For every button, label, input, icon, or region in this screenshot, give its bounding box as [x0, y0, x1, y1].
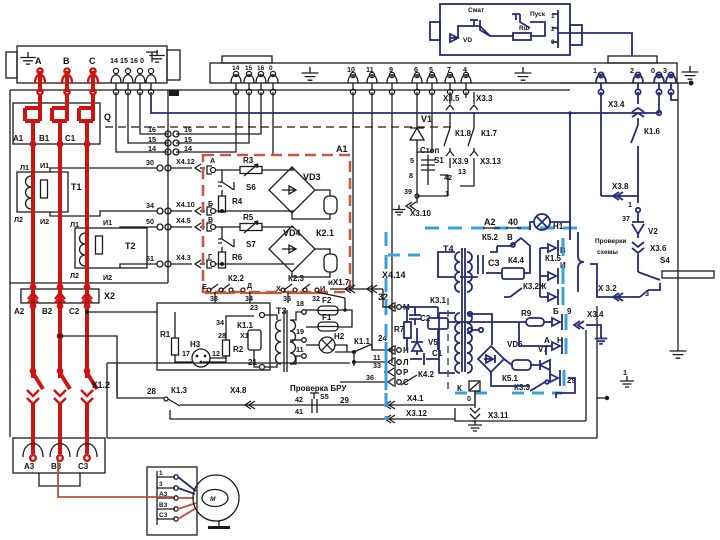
svg-text:6: 6: [414, 65, 418, 74]
pin row Л: [394, 357, 396, 367]
wire strip2-16 down: [176, 92, 261, 134]
red chevrons in X2: [28, 293, 38, 303]
svg-text:Х4.3: Х4.3: [176, 253, 191, 262]
Q linkage dashed: [105, 126, 452, 128]
svg-text:1: 1: [593, 66, 597, 75]
motor terminal circles: [174, 475, 178, 479]
strip2 right terminal 2: [635, 72, 640, 77]
wire 14 cascade: [116, 92, 168, 152]
svg-text:R2: R2: [233, 345, 244, 354]
ground in strip X1 left: [20, 52, 35, 64]
ground right end: [682, 66, 699, 79]
svg-text:М: М: [210, 496, 216, 503]
svg-text:36: 36: [366, 373, 374, 382]
svg-text:13: 13: [458, 167, 466, 176]
row X4.1: [180, 404, 470, 406]
svg-text:10: 10: [347, 65, 355, 74]
svg-text:16: 16: [257, 65, 265, 72]
svg-text:Х4.10: Х4.10: [176, 200, 195, 209]
switch Q box: [13, 103, 100, 144]
svg-text:Н2: Н2: [334, 332, 345, 341]
svg-text:19: 19: [296, 327, 304, 336]
blue wires upper: [490, 246, 497, 252]
svg-text:2: 2: [551, 26, 555, 33]
svg-text:F1: F1: [322, 313, 332, 322]
relay coil K2.1a: [315, 190, 330, 196]
svg-text:Л1: Л1: [20, 163, 29, 172]
svg-text:29: 29: [340, 396, 349, 405]
strip2 terminal 16: [258, 71, 263, 76]
terminal strip top long: [210, 63, 677, 83]
svg-text:37: 37: [622, 214, 630, 223]
inner dashed divider: [447, 298, 449, 392]
svg-text:Стоп: Стоп: [420, 146, 439, 155]
svg-text:К3.1: К3.1: [430, 296, 447, 305]
svg-text:В3: В3: [159, 502, 168, 509]
svg-text:К3.2Ж: К3.2Ж: [523, 282, 547, 291]
svg-text:14: 14: [148, 144, 156, 153]
T4 secondary left loop: [439, 312, 455, 314]
svg-text:Проверки: Проверки: [595, 238, 626, 245]
motor M: [193, 475, 239, 521]
inner divider wall: [167, 90, 169, 283]
wire 32: [317, 292, 345, 298]
svg-text:5: 5: [410, 156, 414, 165]
bridge VD4: [269, 226, 315, 272]
svg-text:30: 30: [146, 158, 154, 167]
svg-text:А2: А2: [484, 217, 496, 227]
red drop C: [85, 138, 89, 378]
svg-text:F2: F2: [322, 296, 332, 305]
svg-text:11: 11: [366, 65, 374, 74]
strip2 terminal 15: [246, 71, 251, 76]
svg-text:2: 2: [630, 66, 634, 75]
svg-text:0: 0: [269, 65, 273, 72]
right enclosure wall: [677, 83, 679, 345]
transformer T2: [75, 228, 147, 268]
VD3 out wires: [291, 167, 293, 170]
ground right wall: [670, 345, 687, 358]
tab on long strip right: [608, 56, 657, 63]
A3 B3 C3 outlet box: [13, 438, 105, 473]
svg-text:8: 8: [409, 171, 413, 180]
svg-text:R1: R1: [160, 330, 171, 339]
svg-text:Х4.12: Х4.12: [176, 157, 195, 166]
contact S6: [218, 170, 234, 190]
strip X1 right tab: [167, 50, 180, 80]
svg-text:R4: R4: [232, 197, 243, 206]
svg-text:V1: V1: [421, 114, 432, 124]
svg-text:14 15 16 0: 14 15 16 0: [110, 56, 144, 65]
svg-text:И: И: [320, 284, 325, 293]
Rsh resistor: [513, 33, 531, 40]
svg-text:Х4.5: Х4.5: [176, 216, 191, 225]
BRU box outline: [157, 303, 270, 370]
motor terminal box: [147, 467, 197, 535]
svg-text:11: 11: [296, 345, 304, 354]
X3.11 ground drop: [474, 391, 476, 408]
svg-text:Л: Л: [403, 358, 409, 367]
red drop A to T1: [31, 138, 35, 378]
module A1 dashed border: [203, 155, 350, 292]
svg-text:Л2: Л2: [70, 271, 79, 280]
svg-text:Д: Д: [247, 281, 252, 290]
pin A: [207, 166, 212, 174]
row wires to pins: [372, 345, 395, 350]
svg-text:С1: С1: [432, 349, 443, 358]
svg-text:К1.7: К1.7: [481, 129, 498, 138]
svg-text:А3: А3: [24, 462, 35, 471]
svg-text:Х3.11: Х3.11: [488, 411, 509, 420]
red phase A drop: [38, 71, 42, 92]
svg-text:VD3: VD3: [303, 172, 321, 182]
svg-text:3: 3: [663, 66, 667, 75]
lamp H1: [534, 214, 550, 230]
svg-text:К4.2: К4.2: [418, 370, 435, 379]
wire y312 from red bus: [87, 311, 157, 313]
cyan pin highlights: [385, 299, 388, 315]
wire 0mid down: [272, 92, 274, 155]
svg-text:Б: Б: [208, 199, 213, 208]
wire from box to strip: [558, 33, 632, 56]
M row wire: [383, 289, 395, 307]
phase terminal A: [37, 68, 42, 73]
svg-text:К1.3: К1.3: [171, 386, 188, 395]
junction blob: [169, 90, 179, 96]
svg-text:32: 32: [312, 294, 320, 303]
svg-text:15: 15: [245, 65, 253, 72]
svg-text:Х4.1: Х4.1: [407, 394, 424, 403]
row X3.12: [170, 410, 455, 419]
wire 35: [287, 292, 289, 303]
red circles at phase joins: [31, 142, 35, 146]
svg-text:14: 14: [232, 65, 240, 72]
svg-text:Р: Р: [403, 368, 409, 377]
bridge VD3: [269, 167, 315, 213]
svg-text:S6: S6: [246, 183, 256, 192]
VD4 out wires: [291, 226, 293, 227]
svg-text:В2: В2: [42, 307, 53, 316]
row 28 K1.3: [117, 363, 164, 398]
cyan pin bars: [562, 238, 565, 305]
svg-text:15: 15: [148, 135, 156, 144]
splice circles cascade: [165, 131, 171, 137]
navy wire 3right: [671, 92, 678, 100]
strip2 right terminal 3: [668, 72, 673, 77]
ground mid strip 2: [515, 67, 532, 80]
svg-text:К2.2: К2.2: [228, 274, 245, 283]
svg-text:Q: Q: [104, 112, 111, 122]
svg-text:34: 34: [146, 201, 154, 210]
pin row Р: [394, 367, 396, 377]
svg-text:Х3.13: Х3.13: [480, 157, 501, 166]
strip2 terminal 9: [389, 72, 394, 77]
svg-text:Н3: Н3: [190, 340, 201, 349]
svg-text:С3: С3: [488, 258, 500, 268]
resistor R2: [210, 355, 226, 358]
svg-text:17: 17: [182, 349, 190, 358]
svg-text:S1: S1: [434, 156, 444, 165]
box internal wires: [458, 26, 513, 38]
svg-text:50: 50: [146, 217, 154, 226]
svg-text:К1.1: К1.1: [237, 321, 254, 330]
T3 right pins: [290, 312, 302, 320]
BRU internal wires: [226, 316, 254, 330]
svg-text:С3: С3: [159, 512, 168, 519]
chassis tab symbol: [146, 52, 158, 62]
red knife switch B: [52, 95, 67, 144]
svg-text:R6: R6: [232, 253, 243, 262]
svg-text:34: 34: [245, 294, 253, 303]
svg-text:Н: Н: [403, 346, 409, 355]
svg-text:С3: С3: [78, 462, 89, 471]
strip2 terminal 10: [350, 72, 355, 77]
svg-text:Х3.5: Х3.5: [443, 94, 460, 103]
svg-text:VD4: VD4: [283, 228, 301, 238]
strip2 right terminal 0: [656, 72, 661, 77]
svg-text:А: А: [544, 336, 550, 345]
svg-text:18: 18: [296, 299, 304, 308]
start box: [440, 4, 570, 55]
svg-text:34: 34: [216, 318, 224, 327]
main top wire bus: [10, 89, 570, 91]
T1 wire to row30: [50, 168, 157, 172]
svg-text:С1: С1: [65, 134, 76, 143]
strip2 terminal 5: [429, 72, 434, 77]
wire 9 down: [391, 92, 393, 363]
ground X3.10: [393, 205, 406, 215]
svg-text:15: 15: [184, 135, 192, 144]
svg-text:Б: Б: [553, 307, 559, 316]
svg-text:И1: И1: [40, 161, 49, 170]
lower module box outline: [455, 408, 586, 421]
red phase B drop: [65, 71, 69, 92]
bridge VD6: [478, 346, 504, 372]
svg-text:40: 40: [508, 217, 518, 227]
svg-text:S4: S4: [660, 256, 670, 265]
svg-text:1: 1: [628, 200, 632, 209]
svg-text:14: 14: [184, 144, 192, 153]
wire 10 down: [352, 92, 354, 289]
svg-text:5: 5: [429, 65, 433, 74]
navy wire 1 down: [600, 92, 602, 196]
svg-text:0: 0: [467, 394, 471, 403]
wire strip2-14 down: [176, 92, 236, 152]
svg-text:К3.3: К3.3: [514, 383, 531, 392]
navy wire 0right: [658, 92, 660, 113]
svg-text:41: 41: [295, 407, 303, 416]
shelf wire y363: [107, 362, 350, 364]
contact S7: [218, 227, 234, 247]
diode V1: [410, 125, 424, 140]
navy bus Y113: [151, 92, 659, 113]
terminal 0: [148, 68, 153, 73]
terminal 14: [113, 68, 118, 73]
splice row 51 Х4.3: [157, 261, 163, 267]
bottom-left step wall: [106, 363, 108, 438]
svg-text:Л1: Л1: [70, 220, 79, 229]
right lower wire loop: [556, 378, 575, 398]
red knife switch A: [25, 95, 40, 144]
phase terminal B: [64, 68, 69, 73]
svg-text:VD6: VD6: [507, 340, 523, 349]
svg-text:В: В: [208, 215, 213, 224]
svg-text:К: К: [457, 384, 462, 393]
svg-text:12: 12: [212, 349, 220, 358]
svg-text:К5.1: К5.1: [502, 374, 519, 383]
svg-text:И2: И2: [40, 217, 49, 226]
wire 34: [249, 292, 251, 303]
strip2 terminal 6: [414, 72, 419, 77]
red terminals on strip: [37, 68, 42, 73]
svg-text:иХ1.7: иХ1.7: [328, 278, 350, 287]
left enclosure wall: [9, 90, 11, 437]
svg-text:Л2: Л2: [14, 215, 23, 224]
svg-text:Х3.4: Х3.4: [608, 100, 625, 109]
svg-text:Х4.8: Х4.8: [230, 386, 247, 395]
navy wire 2 down X3.4: [637, 92, 639, 104]
svg-text:Проверка БРУ: Проверка БРУ: [290, 384, 347, 393]
svg-text:Х2: Х2: [104, 291, 115, 301]
bottom enclosure line: [107, 437, 597, 439]
wire 16 cascade: [140, 92, 168, 134]
pin row С: [394, 377, 396, 387]
red knife switch C: [79, 95, 93, 144]
svg-text:Х 3.2: Х 3.2: [598, 284, 617, 293]
brace right: [578, 232, 584, 292]
wire 11 down: [371, 92, 373, 350]
pin row Н: [394, 345, 396, 355]
K3.1 coil: [428, 318, 448, 329]
terminal 15: [125, 68, 130, 73]
svg-text:К1.8: К1.8: [455, 129, 472, 138]
svg-text:21: 21: [248, 358, 257, 367]
V7 riser to A row: [545, 346, 547, 355]
red drop B: [58, 138, 62, 378]
X2 connector box: [21, 289, 99, 303]
strip2 terminal 11: [369, 72, 374, 77]
svg-text:3: 3: [159, 481, 163, 488]
svg-text:А: А: [210, 156, 215, 165]
tab on long strip left: [222, 56, 272, 63]
wire 5 down: [417, 92, 432, 152]
svg-text:R9: R9: [521, 309, 532, 318]
right top terminal dot: [689, 81, 694, 86]
svg-text:42: 42: [295, 395, 303, 404]
strip2 terminal 7: [447, 72, 452, 77]
svg-text:S5: S5: [320, 392, 329, 401]
svg-text:И2: И2: [103, 273, 112, 282]
svg-text:Пуск: Пуск: [530, 11, 546, 18]
wire B2 node down: [60, 336, 117, 395]
wire 4 drop to 42: [465, 92, 467, 98]
splice row 50 Х4.5: [157, 224, 163, 230]
svg-text:И1: И1: [103, 218, 112, 227]
X3.10 drop: [416, 196, 418, 203]
resistor R5 variable: [216, 226, 240, 228]
phase terminal C: [90, 68, 95, 73]
svg-text:С: С: [89, 56, 96, 66]
svg-text:9: 9: [389, 65, 393, 74]
svg-text:Х3.3: Х3.3: [476, 94, 493, 103]
svg-text:4: 4: [463, 65, 467, 74]
lower-right wall: [596, 306, 598, 438]
breaker K1.2 contacts: [33, 373, 43, 389]
resistor R3 variable: [216, 169, 240, 171]
svg-text:Н1: Н1: [553, 222, 564, 231]
X4.1 right end: [470, 391, 475, 405]
S1 wires: [417, 152, 448, 196]
svg-text:28: 28: [218, 331, 226, 340]
motor stand: [218, 521, 220, 526]
svg-text:С2: С2: [69, 307, 80, 316]
svg-text:Х3.9: Х3.9: [452, 157, 469, 166]
top-right wire bus: [560, 82, 688, 84]
svg-text:R3: R3: [243, 156, 254, 165]
svg-text:К1.1: К1.1: [354, 337, 371, 346]
svg-text:VD: VD: [463, 37, 472, 44]
fuse right wires: [338, 298, 345, 310]
wire strip2-15 down: [176, 92, 249, 143]
wire 6 down: [416, 92, 418, 125]
svg-text:R5: R5: [243, 213, 254, 222]
svg-text:Х3.4: Х3.4: [587, 310, 604, 319]
svg-text:В: В: [507, 233, 513, 242]
svg-text:7: 7: [447, 65, 451, 74]
svg-text:Х: Х: [276, 284, 281, 293]
wire 33: [214, 292, 216, 303]
strip X1 left tab: [6, 52, 17, 78]
svg-text:А1: А1: [336, 144, 348, 154]
svg-text:28: 28: [147, 387, 156, 396]
T1 wire to row34: [50, 211, 157, 216]
resistor R4: [221, 190, 223, 196]
terminal 16: [137, 68, 142, 73]
svg-text:1: 1: [159, 470, 163, 477]
T2 wire to row51: [120, 264, 157, 268]
svg-text:В1: В1: [39, 134, 50, 143]
svg-text:33: 33: [210, 294, 218, 303]
pin 29: [549, 370, 551, 378]
divider shelf: [10, 282, 168, 284]
T2 wire to row50: [120, 227, 157, 228]
strip2 terminal 4: [463, 72, 468, 77]
svg-text:К2.1: К2.1: [316, 228, 334, 238]
bracket below outlet box: [39, 473, 80, 486]
svg-text:К1.6: К1.6: [644, 127, 661, 136]
splice row 34 Х4.10: [157, 208, 163, 214]
svg-text:К4.4: К4.4: [508, 256, 525, 265]
svg-text:Х4.14: Х4.14: [382, 270, 406, 280]
wire 4 X3.13: [473, 92, 475, 104]
red wire B3 to motor: [58, 461, 173, 497]
svg-text:1: 1: [623, 368, 627, 377]
strip2 right terminal 1: [598, 72, 603, 77]
pin row М: [394, 302, 396, 312]
pin V: [207, 223, 212, 231]
svg-text:А: А: [35, 56, 42, 66]
transformer T1: [17, 172, 68, 212]
svg-text:Х3.8: Х3.8: [612, 182, 629, 191]
svg-text:К5.2: К5.2: [482, 233, 499, 242]
svg-text:А1: А1: [13, 134, 24, 143]
svg-text:Смат: Смат: [468, 7, 484, 14]
wire 15 cascade: [128, 92, 168, 143]
svg-text:V5: V5: [428, 338, 438, 347]
pin G: [207, 260, 212, 268]
svg-text:Т1: Т1: [71, 182, 82, 192]
motor fan wires: [178, 477, 196, 491]
